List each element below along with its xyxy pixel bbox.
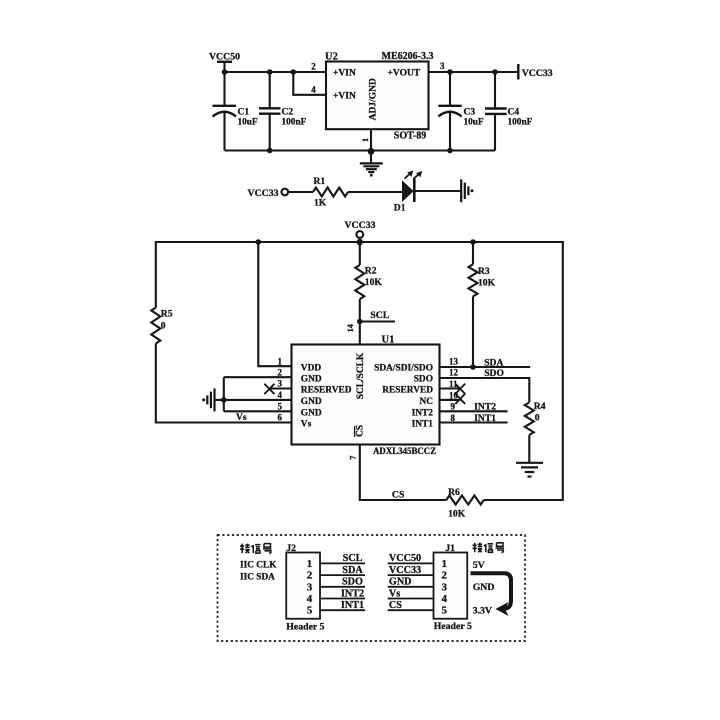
svg-text:VCC50: VCC50 bbox=[389, 553, 421, 564]
svg-text:R2: R2 bbox=[365, 265, 377, 276]
svg-text:3.3V: 3.3V bbox=[473, 606, 492, 617]
svg-text:SCL/SCLK: SCL/SCLK bbox=[356, 352, 366, 399]
wire J1 pin 4 net Vs bbox=[388, 598, 434, 600]
node junction C2/top rail bbox=[267, 69, 273, 75]
resistor R6 bbox=[446, 496, 484, 505]
node junction C3/bottom bbox=[447, 148, 453, 154]
svg-text:SDA: SDA bbox=[484, 357, 503, 368]
svg-text:INT2: INT2 bbox=[474, 402, 496, 413]
svg-text:11: 11 bbox=[449, 379, 458, 389]
wire VDD branch bbox=[258, 242, 291, 366]
wire J2 pin 2 net SDA bbox=[320, 574, 365, 576]
svg-text:VCC33: VCC33 bbox=[389, 565, 421, 576]
resistor R1 bbox=[313, 188, 348, 197]
svg-text:10: 10 bbox=[449, 390, 459, 400]
svg-text:Vs: Vs bbox=[236, 413, 247, 423]
svg-text:14: 14 bbox=[346, 324, 355, 332]
svg-text:10K: 10K bbox=[448, 509, 466, 520]
svg-text:ADXL345BCCZ: ADXL345BCCZ bbox=[373, 446, 436, 456]
svg-text:D1: D1 bbox=[394, 203, 406, 214]
svg-text:10uF: 10uF bbox=[238, 118, 258, 128]
svg-text:RESERVED: RESERVED bbox=[382, 386, 433, 396]
svg-text:2: 2 bbox=[441, 570, 447, 582]
node junction gnd/bottom bbox=[368, 148, 375, 155]
net port circle VCC33 bbox=[356, 231, 363, 238]
svg-text:5: 5 bbox=[441, 605, 447, 617]
svg-text:SCL: SCL bbox=[343, 553, 363, 564]
U1 pin name CS (overbar) bbox=[355, 425, 366, 437]
svg-text:U1: U1 bbox=[382, 334, 395, 345]
node junction pin4 branch bbox=[291, 69, 297, 75]
svg-text:6: 6 bbox=[278, 413, 283, 423]
wire R2 top bbox=[359, 242, 361, 265]
svg-text:VCC33: VCC33 bbox=[248, 188, 279, 199]
wire R4 to ground bbox=[528, 435, 530, 462]
svg-text:ME6206-3.3: ME6206-3.3 bbox=[382, 51, 434, 62]
ground (U1 left, sideways) bbox=[202, 388, 214, 411]
svg-text:GND: GND bbox=[389, 577, 412, 588]
svg-text:100nF: 100nF bbox=[508, 118, 533, 128]
svg-text:C2: C2 bbox=[282, 108, 294, 118]
wire pin 11 stub bbox=[440, 387, 461, 389]
svg-text:CS: CS bbox=[392, 490, 405, 501]
arrow 3.3V supply bbox=[471, 573, 512, 616]
svg-text:VDD: VDD bbox=[301, 363, 322, 373]
LED D1 bbox=[402, 170, 422, 202]
svg-text:SOT-89: SOT-89 bbox=[394, 131, 426, 142]
node junction R3/SDA bbox=[470, 364, 476, 370]
no-connect X pin 10 bbox=[455, 394, 465, 404]
svg-text:VCC33: VCC33 bbox=[522, 68, 553, 79]
svg-text:1K: 1K bbox=[314, 198, 327, 209]
wire D1 to ground bbox=[416, 190, 461, 192]
header J2 body bbox=[286, 553, 320, 619]
svg-text:5: 5 bbox=[278, 402, 283, 412]
wire J1 pin 3 net GND bbox=[388, 586, 434, 588]
svg-text:CS: CS bbox=[356, 425, 366, 437]
svg-text:C3: C3 bbox=[464, 108, 476, 118]
dashed connector box bbox=[218, 535, 526, 641]
svg-text:Header 5: Header 5 bbox=[286, 622, 324, 633]
svg-text:8: 8 bbox=[451, 413, 456, 423]
svg-text:INT1: INT1 bbox=[474, 413, 496, 424]
wire regulator bottom rail bbox=[225, 149, 496, 151]
capacitor C2 bbox=[259, 72, 281, 151]
svg-text:2: 2 bbox=[311, 62, 316, 72]
chinese note 接信号 (right) bbox=[473, 543, 505, 553]
svg-text:U2: U2 bbox=[325, 52, 338, 63]
svg-text:GND: GND bbox=[473, 582, 495, 593]
svg-text:0: 0 bbox=[161, 321, 166, 332]
regulator U2 body bbox=[326, 62, 429, 130]
wire pin 10 stub bbox=[440, 399, 461, 401]
node junction gnd tie bbox=[221, 397, 227, 403]
svg-text:10K: 10K bbox=[478, 277, 496, 288]
svg-text:R1: R1 bbox=[314, 176, 326, 187]
resistor R2 bbox=[355, 265, 364, 299]
svg-text:5: 5 bbox=[307, 605, 313, 617]
svg-text:VCC33: VCC33 bbox=[344, 220, 375, 231]
wire SCL stub bbox=[360, 320, 395, 322]
wire U2 pin3 to VCC33 bbox=[429, 71, 518, 73]
accelerometer U1 body bbox=[292, 345, 440, 445]
wire left edge upper bbox=[155, 241, 157, 308]
node junction VCC33/rail bbox=[357, 239, 363, 245]
wire pin 5 GND bbox=[224, 410, 292, 412]
svg-text:13: 13 bbox=[449, 357, 459, 367]
capacitor C4 bbox=[485, 72, 507, 151]
svg-text:Vs: Vs bbox=[389, 588, 400, 599]
net port circle bbox=[282, 189, 289, 196]
svg-text:R6: R6 bbox=[448, 487, 460, 498]
svg-text:C4: C4 bbox=[508, 108, 520, 118]
svg-text:ADJ/GND: ADJ/GND bbox=[369, 78, 379, 120]
power flag VCC33 (regulator output) bbox=[518, 64, 553, 80]
header J1 body bbox=[434, 553, 468, 619]
svg-text:+VOUT: +VOUT bbox=[388, 69, 421, 79]
svg-text:1: 1 bbox=[307, 558, 313, 570]
svg-text:3: 3 bbox=[307, 581, 313, 593]
svg-text:SDO: SDO bbox=[484, 368, 504, 379]
svg-text:2: 2 bbox=[307, 570, 313, 582]
wire J2 pin 3 net SDO bbox=[320, 586, 365, 588]
wire SDO line to R4 bbox=[440, 378, 530, 402]
wire pin 4 GND to ground bbox=[215, 399, 292, 401]
svg-text:INT1: INT1 bbox=[412, 420, 434, 430]
svg-text:10uF: 10uF bbox=[464, 118, 484, 128]
capacitor C3 bbox=[438, 72, 461, 151]
wire pin 3 stub bbox=[269, 387, 291, 389]
wire J2 pin 1 net SCL bbox=[320, 562, 365, 564]
svg-text:IIC SDA: IIC SDA bbox=[240, 573, 275, 583]
wire pin 4 branch bbox=[293, 72, 326, 95]
wire VCC33 to R1 bbox=[288, 191, 313, 193]
svg-text:R4: R4 bbox=[534, 401, 546, 412]
svg-text:9: 9 bbox=[451, 402, 456, 412]
wire main top rail bbox=[156, 241, 563, 243]
svg-text:CS: CS bbox=[389, 600, 402, 611]
svg-text:SCL: SCL bbox=[370, 310, 390, 321]
wire J1 pin 2 net VCC33 bbox=[388, 574, 434, 576]
wire R3 to SDA line bbox=[472, 296, 474, 367]
svg-text:1: 1 bbox=[361, 138, 370, 142]
wire pin 2 GND bbox=[224, 376, 292, 378]
svg-text:4: 4 bbox=[307, 593, 313, 605]
wire R1 to D1 bbox=[348, 191, 402, 193]
svg-text:INT2: INT2 bbox=[412, 409, 434, 419]
svg-text:3: 3 bbox=[278, 379, 283, 389]
svg-text:2: 2 bbox=[278, 367, 283, 377]
svg-text:12: 12 bbox=[449, 368, 459, 378]
wire R2 to U1 pin14 bbox=[359, 299, 361, 345]
wire R3 top bbox=[472, 242, 474, 264]
svg-text:4: 4 bbox=[441, 593, 447, 605]
resistor R4 bbox=[525, 402, 534, 435]
svg-text:4: 4 bbox=[278, 390, 283, 400]
svg-text:10K: 10K bbox=[365, 277, 383, 288]
resistor R3 bbox=[469, 264, 478, 296]
power flag VCC50 bbox=[209, 52, 240, 73]
wire J1 pin 5 net CS bbox=[388, 609, 434, 611]
svg-text:IIC CLK: IIC CLK bbox=[240, 561, 277, 571]
svg-text:7: 7 bbox=[348, 456, 357, 460]
resistor R5 bbox=[151, 308, 160, 344]
svg-text:GND: GND bbox=[301, 409, 322, 419]
node junction C2/bottom bbox=[267, 148, 273, 154]
svg-text:+VIN: +VIN bbox=[333, 91, 356, 101]
ground (regulator) bbox=[360, 151, 383, 176]
ground (LED, sideways) bbox=[461, 179, 473, 202]
wire J2 pin 4 net INT2 bbox=[320, 598, 365, 600]
svg-text:3: 3 bbox=[440, 61, 445, 71]
svg-text:INT2: INT2 bbox=[341, 588, 364, 599]
node junction C3/top bbox=[447, 69, 453, 75]
svg-text:SDO: SDO bbox=[414, 374, 433, 384]
svg-text:4: 4 bbox=[311, 84, 316, 94]
node junction SCL bbox=[357, 319, 363, 325]
svg-text:Header 5: Header 5 bbox=[434, 621, 472, 632]
no-connect X pin 11 bbox=[455, 384, 465, 394]
wire SDA line bbox=[440, 366, 531, 368]
svg-text:R5: R5 bbox=[161, 309, 173, 320]
node junction VDD branch bbox=[255, 239, 261, 245]
svg-text:SDA: SDA bbox=[342, 565, 363, 576]
svg-text:Vs: Vs bbox=[301, 420, 312, 430]
svg-text:SDA/SDI/SDO: SDA/SDI/SDO bbox=[374, 363, 433, 373]
node junction VCC50/C1 bbox=[222, 69, 228, 75]
svg-text:SDO: SDO bbox=[342, 577, 363, 588]
svg-text:NC: NC bbox=[419, 397, 433, 407]
wire right edge bbox=[562, 241, 564, 501]
node junction R3 branch bbox=[470, 239, 476, 245]
chinese note 接信号 (left) bbox=[240, 544, 272, 554]
wire U1 pin 7 to CS row bbox=[360, 445, 447, 501]
svg-text:GND: GND bbox=[301, 397, 322, 407]
svg-text:1: 1 bbox=[441, 558, 447, 570]
svg-text:100nF: 100nF bbox=[282, 118, 307, 128]
ground (R4) bbox=[516, 463, 543, 477]
svg-text:C1: C1 bbox=[238, 108, 250, 118]
wire INT1 line bbox=[440, 421, 508, 423]
node junction C4/top bbox=[492, 69, 498, 75]
U2 pin 1 stub bbox=[370, 129, 372, 150]
wire gnd tie vertical bbox=[223, 377, 225, 411]
svg-text:R3: R3 bbox=[478, 266, 490, 277]
svg-text:3: 3 bbox=[441, 581, 447, 593]
wire J2 pin 5 net INT1 bbox=[320, 609, 365, 611]
svg-text:INT1: INT1 bbox=[341, 600, 364, 611]
svg-text:+VIN: +VIN bbox=[333, 69, 356, 79]
wire J1 pin 1 net VCC50 bbox=[388, 562, 434, 564]
svg-text:GND: GND bbox=[301, 374, 322, 384]
svg-text:5V: 5V bbox=[473, 560, 485, 571]
wire CS to right edge bbox=[484, 499, 563, 501]
svg-text:0: 0 bbox=[535, 412, 540, 423]
wire INT2 line bbox=[440, 410, 508, 412]
wire top rail VCC50 to U2 pin 2 bbox=[225, 71, 327, 73]
no-connect X pin 3 bbox=[264, 384, 274, 394]
svg-text:RESERVED: RESERVED bbox=[301, 386, 352, 396]
capacitor C1 bbox=[213, 72, 237, 151]
svg-text:1: 1 bbox=[278, 356, 283, 366]
wire left edge lower to Vs bbox=[156, 344, 292, 423]
